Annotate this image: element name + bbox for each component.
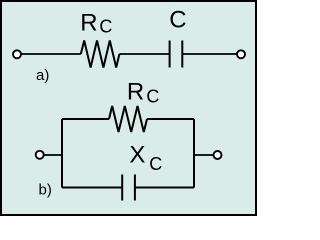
svg-text:X: X	[129, 142, 145, 169]
svg-text:R: R	[127, 79, 144, 106]
svg-text:C: C	[169, 7, 186, 34]
svg-text:C: C	[99, 17, 112, 37]
svg-text:R: R	[80, 9, 97, 36]
svg-text:C: C	[146, 87, 159, 107]
svg-text:a): a)	[36, 67, 49, 84]
svg-text:b): b)	[39, 182, 52, 199]
svg-text:C: C	[149, 154, 162, 174]
